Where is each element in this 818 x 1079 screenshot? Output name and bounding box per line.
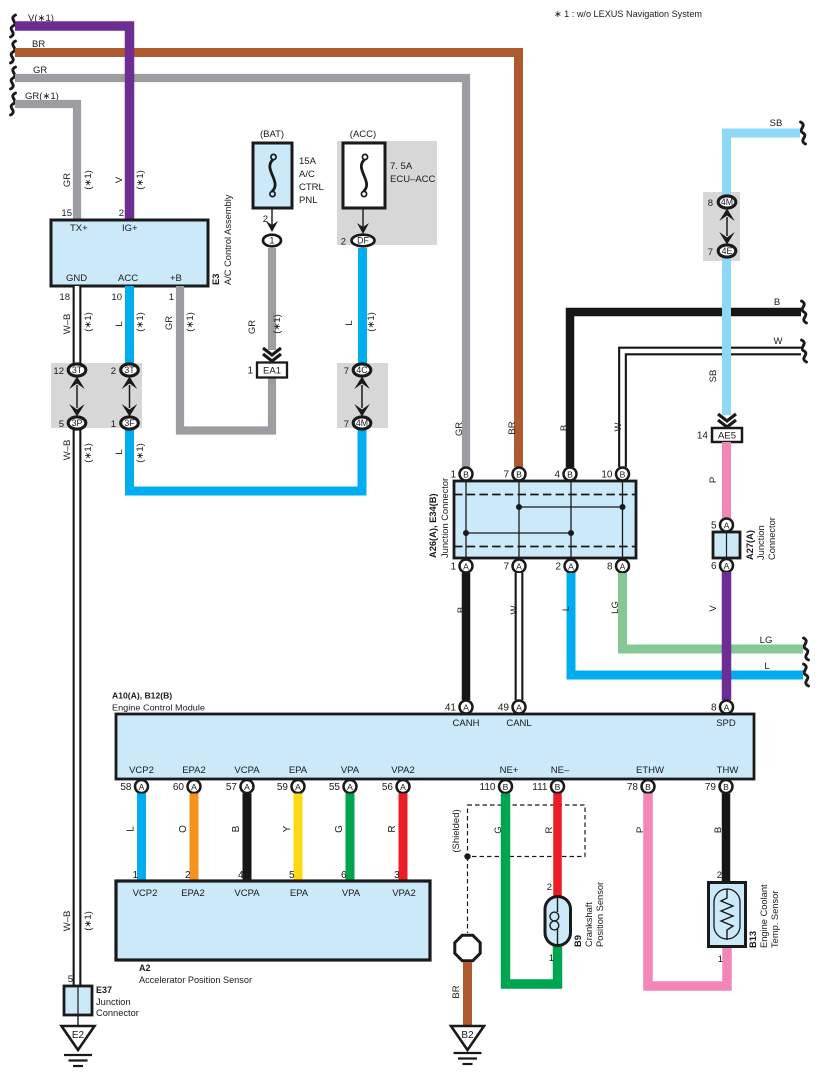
svg-text:B: B xyxy=(456,607,467,613)
svg-text:111: 111 xyxy=(532,782,548,793)
svg-text:DF: DF xyxy=(357,236,369,246)
svg-text:CANH: CANH xyxy=(453,718,480,729)
svg-text:E2: E2 xyxy=(72,1030,85,1041)
svg-text:W–B: W–B xyxy=(62,314,73,335)
svg-text:NE+: NE+ xyxy=(500,765,519,776)
svg-text:NE–: NE– xyxy=(551,765,570,776)
svg-text:(BAT): (BAT) xyxy=(260,129,284,140)
svg-text:L: L xyxy=(344,320,355,325)
svg-text:A: A xyxy=(463,561,469,571)
svg-text:3F: 3F xyxy=(124,418,135,428)
svg-text:ECU–ACC: ECU–ACC xyxy=(390,174,436,185)
svg-text:A10(A), B12(B): A10(A), B12(B) xyxy=(112,691,172,701)
svg-text:7: 7 xyxy=(503,470,509,481)
svg-text:A: A xyxy=(400,782,406,792)
svg-text:GR: GR xyxy=(62,173,73,187)
svg-text:4: 4 xyxy=(238,870,244,881)
svg-text:SB: SB xyxy=(770,118,783,129)
svg-text:6: 6 xyxy=(341,870,347,881)
svg-text:Engine Control Module: Engine Control Module xyxy=(112,703,205,713)
svg-text:VCPA: VCPA xyxy=(234,765,260,776)
svg-text:W–B: W–B xyxy=(62,440,73,461)
svg-text:(∗1): (∗1) xyxy=(83,443,94,463)
svg-text:A/C Control Assembly: A/C Control Assembly xyxy=(223,194,233,285)
svg-text:B: B xyxy=(713,827,724,833)
svg-text:A26(A), E34(B): A26(A), E34(B) xyxy=(428,493,438,558)
svg-text:L: L xyxy=(114,321,125,326)
svg-text:CTRL: CTRL xyxy=(299,182,324,193)
svg-text:G: G xyxy=(493,826,504,833)
svg-text:7: 7 xyxy=(503,562,509,573)
svg-text:W: W xyxy=(613,422,624,431)
svg-text:12: 12 xyxy=(53,366,64,377)
svg-text:L: L xyxy=(561,606,572,611)
svg-text:ACC: ACC xyxy=(118,273,138,284)
svg-text:A: A xyxy=(244,782,250,792)
svg-text:E3: E3 xyxy=(211,274,221,285)
svg-text:7: 7 xyxy=(344,419,349,430)
svg-text:W–B: W–B xyxy=(62,911,73,932)
svg-text:LG: LG xyxy=(610,601,621,614)
svg-text:60: 60 xyxy=(173,782,185,793)
svg-text:V: V xyxy=(114,176,125,183)
svg-text:SB: SB xyxy=(708,370,719,383)
svg-text:2: 2 xyxy=(263,214,268,225)
svg-text:(∗1): (∗1) xyxy=(83,911,94,931)
svg-text:2: 2 xyxy=(119,208,124,219)
svg-text:SPD: SPD xyxy=(716,718,736,729)
svg-text:P: P xyxy=(708,477,719,483)
svg-text:B: B xyxy=(645,782,651,792)
svg-text:79: 79 xyxy=(705,782,717,793)
svg-text:8: 8 xyxy=(711,703,717,714)
svg-text:P: P xyxy=(635,827,646,833)
svg-text:Y: Y xyxy=(282,825,293,832)
svg-text:4M: 4M xyxy=(356,418,368,428)
svg-text:VPA2: VPA2 xyxy=(391,765,415,776)
svg-text:A: A xyxy=(191,782,197,792)
svg-text:EPA2: EPA2 xyxy=(182,765,206,776)
svg-text:A: A xyxy=(295,782,301,792)
svg-text:O: O xyxy=(178,825,189,833)
svg-text:8: 8 xyxy=(708,198,713,209)
svg-text:B: B xyxy=(620,469,626,479)
svg-text:A: A xyxy=(724,520,730,530)
svg-text:A: A xyxy=(516,561,522,571)
svg-text:A: A xyxy=(516,702,522,712)
svg-text:VCP2: VCP2 xyxy=(129,765,154,776)
svg-text:5: 5 xyxy=(289,870,295,881)
svg-text:(∗1): (∗1) xyxy=(135,443,146,463)
svg-text:8: 8 xyxy=(607,562,613,573)
svg-text:EPA2: EPA2 xyxy=(181,888,205,899)
svg-text:A27(A): A27(A) xyxy=(745,530,755,560)
svg-text:B: B xyxy=(231,825,242,832)
svg-text:3T: 3T xyxy=(72,365,83,375)
svg-text:B: B xyxy=(555,782,561,792)
svg-text:1: 1 xyxy=(169,292,174,303)
svg-text:TX+: TX+ xyxy=(70,223,88,234)
svg-text:Junction: Junction xyxy=(96,997,131,1007)
svg-text:L: L xyxy=(126,826,137,832)
svg-text:(∗1): (∗1) xyxy=(83,312,94,332)
svg-text:W: W xyxy=(509,605,520,614)
svg-text:VPA2: VPA2 xyxy=(392,888,416,899)
svg-text:B2: B2 xyxy=(461,1030,474,1041)
svg-text:A: A xyxy=(620,561,626,571)
svg-text:2: 2 xyxy=(717,870,722,881)
svg-text:10: 10 xyxy=(601,470,613,481)
svg-text:49: 49 xyxy=(498,703,510,714)
svg-text:(ACC): (ACC) xyxy=(350,129,376,140)
svg-text:EA1: EA1 xyxy=(263,366,281,377)
svg-text:(∗1): (∗1) xyxy=(366,312,377,332)
svg-text:1: 1 xyxy=(270,236,275,246)
svg-text:A: A xyxy=(568,561,574,571)
svg-text:W: W xyxy=(774,336,783,347)
svg-text:B: B xyxy=(559,425,570,431)
svg-text:1: 1 xyxy=(549,953,554,964)
svg-text:56: 56 xyxy=(382,782,394,793)
svg-text:4: 4 xyxy=(554,470,560,481)
svg-text:∗ 1 : w/o LEXUS Navigation Sys: ∗ 1 : w/o LEXUS Navigation System xyxy=(554,8,702,19)
svg-text:1: 1 xyxy=(247,366,253,377)
svg-text:VCP2: VCP2 xyxy=(133,888,158,899)
svg-text:B9: B9 xyxy=(573,935,583,947)
svg-text:AE5: AE5 xyxy=(718,431,736,442)
svg-text:7. 5A: 7. 5A xyxy=(390,161,413,172)
svg-text:VPA: VPA xyxy=(342,888,361,899)
svg-text:Junction Connector: Junction Connector xyxy=(440,478,450,558)
svg-text:(∗1): (∗1) xyxy=(135,312,146,332)
svg-text:Connector: Connector xyxy=(96,1008,139,1018)
svg-text:3P: 3P xyxy=(72,418,83,428)
svg-text:5: 5 xyxy=(711,521,717,532)
svg-text:+B: +B xyxy=(170,273,182,284)
svg-text:B13: B13 xyxy=(748,931,758,948)
svg-text:GND: GND xyxy=(66,273,87,284)
svg-text:2: 2 xyxy=(547,882,552,893)
svg-text:L: L xyxy=(114,449,125,454)
svg-text:3T: 3T xyxy=(124,365,135,375)
svg-text:A: A xyxy=(463,702,469,712)
svg-text:A: A xyxy=(347,782,353,792)
svg-text:1: 1 xyxy=(718,954,723,965)
svg-text:L: L xyxy=(764,661,769,672)
svg-text:4M: 4M xyxy=(721,197,733,207)
svg-text:10: 10 xyxy=(111,292,122,303)
svg-text:CANL: CANL xyxy=(506,718,531,729)
svg-text:3: 3 xyxy=(394,870,400,881)
svg-text:41: 41 xyxy=(445,703,457,714)
svg-text:14: 14 xyxy=(697,431,709,442)
svg-text:E37: E37 xyxy=(96,985,112,995)
svg-text:EPA: EPA xyxy=(290,888,309,899)
svg-text:Junction: Junction xyxy=(756,525,766,560)
svg-text:V: V xyxy=(708,605,719,612)
svg-text:78: 78 xyxy=(627,782,639,793)
svg-text:G: G xyxy=(334,825,345,833)
svg-text:EPA: EPA xyxy=(289,765,308,776)
svg-text:R: R xyxy=(544,826,555,833)
svg-text:A2: A2 xyxy=(139,963,151,973)
svg-text:2: 2 xyxy=(555,562,561,573)
svg-text:1: 1 xyxy=(111,419,116,430)
svg-text:Position Sensor: Position Sensor xyxy=(595,882,605,947)
svg-text:2: 2 xyxy=(111,366,116,377)
svg-text:A: A xyxy=(724,561,730,571)
svg-text:57: 57 xyxy=(226,782,238,793)
svg-text:A: A xyxy=(139,782,145,792)
svg-text:7: 7 xyxy=(344,366,349,377)
svg-text:(∗1): (∗1) xyxy=(135,170,146,190)
svg-text:5: 5 xyxy=(59,419,64,430)
svg-text:ETHW: ETHW xyxy=(636,765,664,776)
svg-text:A: A xyxy=(724,702,730,712)
svg-text:59: 59 xyxy=(277,782,289,793)
svg-text:GR: GR xyxy=(247,320,258,334)
svg-text:4E: 4E xyxy=(722,246,733,256)
svg-text:1: 1 xyxy=(450,470,456,481)
svg-text:1: 1 xyxy=(450,562,456,573)
svg-text:B: B xyxy=(567,469,573,479)
svg-text:1: 1 xyxy=(132,870,138,881)
svg-text:110: 110 xyxy=(480,782,496,793)
svg-text:B: B xyxy=(503,782,509,792)
svg-text:2: 2 xyxy=(341,237,346,248)
svg-text:B: B xyxy=(463,469,469,479)
svg-text:GR: GR xyxy=(454,422,465,436)
svg-text:7: 7 xyxy=(708,247,713,258)
svg-text:55: 55 xyxy=(329,782,341,793)
svg-text:VCPA: VCPA xyxy=(234,888,260,899)
svg-text:(∗1): (∗1) xyxy=(272,314,283,334)
svg-text:Temp. Sensor: Temp. Sensor xyxy=(770,891,780,948)
svg-text:(∗1): (∗1) xyxy=(185,312,196,332)
svg-text:GR: GR xyxy=(164,316,175,330)
svg-text:THW: THW xyxy=(717,765,739,776)
svg-text:58: 58 xyxy=(120,782,132,793)
svg-text:Engine Coolant: Engine Coolant xyxy=(759,884,769,948)
svg-text:Connector: Connector xyxy=(767,517,777,560)
svg-text:5: 5 xyxy=(68,974,73,985)
svg-text:BR: BR xyxy=(451,985,462,998)
svg-text:PNL: PNL xyxy=(299,195,317,206)
svg-text:A/C: A/C xyxy=(299,169,315,180)
svg-text:15: 15 xyxy=(61,208,72,219)
svg-text:Accelerator Position Sensor: Accelerator Position Sensor xyxy=(139,975,252,985)
svg-text:IG+: IG+ xyxy=(122,223,138,234)
svg-text:BR: BR xyxy=(507,421,518,434)
svg-text:B: B xyxy=(723,782,729,792)
svg-text:15A: 15A xyxy=(299,156,317,167)
svg-text:VPA: VPA xyxy=(341,765,360,776)
svg-text:4C: 4C xyxy=(356,365,368,375)
svg-text:LG: LG xyxy=(760,635,773,646)
svg-text:18: 18 xyxy=(59,292,70,303)
svg-text:Crankshaft: Crankshaft xyxy=(584,902,594,947)
svg-text:(∗1): (∗1) xyxy=(83,170,94,190)
svg-text:(Shielded): (Shielded) xyxy=(451,809,462,852)
svg-text:B: B xyxy=(516,469,522,479)
svg-text:B: B xyxy=(774,297,780,308)
svg-text:2: 2 xyxy=(185,870,191,881)
svg-text:R: R xyxy=(387,825,398,832)
svg-text:6: 6 xyxy=(711,561,717,572)
